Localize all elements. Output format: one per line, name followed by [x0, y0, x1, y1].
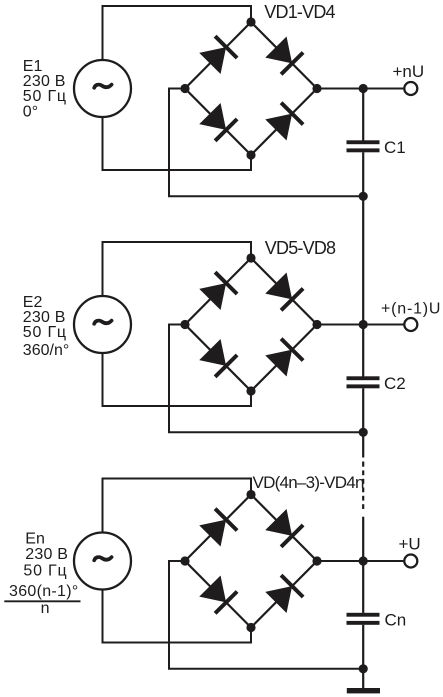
svg-text:230 В: 230 В: [25, 546, 68, 563]
svg-text:C2: C2: [384, 374, 406, 393]
svg-text:360/n°: 360/n°: [23, 342, 69, 359]
svg-text:C1: C1: [384, 138, 406, 157]
svg-text:+(n-1)U: +(n-1)U: [381, 300, 441, 317]
svg-text:0°: 0°: [23, 104, 38, 121]
svg-text:VD5-VD8: VD5-VD8: [265, 238, 336, 258]
svg-text:50 Гц: 50 Гц: [23, 88, 67, 105]
svg-text:50 Гц: 50 Гц: [23, 563, 67, 580]
svg-text:Cn: Cn: [385, 611, 407, 630]
svg-text:360(n-1)°: 360(n-1)°: [9, 583, 79, 600]
svg-text:50 Гц: 50 Гц: [23, 324, 67, 341]
svg-text:n: n: [41, 600, 50, 617]
svg-text:VD1-VD4: VD1-VD4: [264, 2, 335, 22]
svg-text:VD(4n–3)-VD4n: VD(4n–3)-VD4n: [253, 473, 364, 492]
svg-text:+nU: +nU: [393, 62, 425, 81]
svg-text:+U: +U: [399, 534, 421, 553]
